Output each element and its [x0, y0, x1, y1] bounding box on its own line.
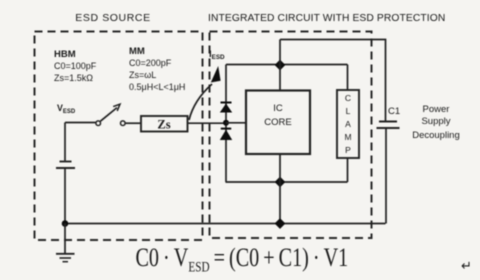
- svg-text:C0 · VESD = (C0 + C1) · V1: C0 · VESD = (C0 + C1) · V1: [136, 244, 349, 275]
- wire VDD junction up and IC core top: [279, 40, 281, 91]
- wire IC core bottom to ground rail: [279, 154, 281, 224]
- svg-text:L: L: [346, 106, 351, 116]
- svg-text:Power: Power: [423, 104, 450, 115]
- wire Zs to pin node: [188, 122, 224, 124]
- svg-text:INTEGRATED CIRCUIT WITH ESD PR: INTEGRATED CIRCUIT WITH ESD PROTECTION: [208, 13, 445, 24]
- wire top supply to C1: [280, 40, 386, 122]
- svg-text:C: C: [345, 93, 351, 103]
- svg-text:C1: C1: [388, 106, 400, 117]
- svg-text:Zs=ωL: Zs=ωL: [129, 70, 156, 80]
- svg-text:Supply: Supply: [421, 116, 450, 127]
- svg-text:Zs: Zs: [157, 118, 170, 132]
- ground symbol: [56, 253, 75, 255]
- svg-text:↵: ↵: [461, 258, 472, 273]
- svg-text:Decoupling: Decoupling: [412, 130, 460, 141]
- svg-text:IC: IC: [273, 103, 283, 114]
- wire switch to Zs: [126, 122, 142, 124]
- IC core box U1: [246, 91, 310, 155]
- wire VDD rail: [226, 64, 348, 66]
- wire pin to IC core: [226, 122, 246, 124]
- ESD source dashed box: [35, 32, 203, 241]
- node VDD junction diamond: [275, 60, 286, 71]
- svg-text:A: A: [345, 119, 351, 129]
- diode string vertical wire: [225, 65, 227, 183]
- wire VSS local rail: [226, 181, 348, 183]
- wire ground rail: [65, 223, 386, 225]
- resistor Zs box: [141, 116, 188, 132]
- capacitor C0 (source capacitor): [60, 161, 72, 163]
- diode D1 (to VDD): [221, 102, 232, 104]
- wire Vesd node vertical to C0: [64, 123, 66, 161]
- clamp box wire bottom: [347, 158, 349, 182]
- switch S1: [96, 121, 101, 126]
- svg-text:P: P: [345, 145, 351, 155]
- svg-text:Zs=1.5kΩ: Zs=1.5kΩ: [54, 73, 93, 83]
- svg-text:0.5μH<L<1μH: 0.5μH<L<1μH: [129, 82, 185, 92]
- node ground rail junction diamond: [275, 218, 286, 229]
- svg-text:C0=200pF: C0=200pF: [129, 58, 172, 68]
- diode D2 (from VSS): [221, 128, 231, 130]
- node pin junction dot: [223, 120, 229, 126]
- svg-text:C0=100pF: C0=100pF: [54, 61, 97, 71]
- svg-text:MM: MM: [129, 46, 145, 57]
- svg-text:CORE: CORE: [264, 117, 291, 128]
- wire Vesd node horizontal: [65, 122, 96, 124]
- IC dashed box: [210, 32, 372, 239]
- Iesd curved arrow: [189, 84, 212, 120]
- svg-text:M: M: [344, 132, 351, 142]
- svg-text:HBM: HBM: [54, 49, 76, 60]
- svg-text:ESD SOURCE: ESD SOURCE: [75, 12, 150, 24]
- clamp box wire top: [347, 65, 349, 91]
- node VSS junction diamond: [275, 177, 286, 188]
- wire to ground symbol: [64, 224, 66, 254]
- clamp box: [337, 90, 359, 158]
- node left ground junction dot: [62, 220, 69, 227]
- wire C0 to ground rail: [64, 168, 66, 224]
- capacitor C1: [379, 121, 397, 123]
